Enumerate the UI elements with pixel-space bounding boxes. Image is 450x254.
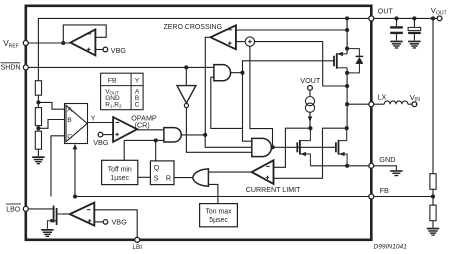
- wire CL plus input to LX node: [274, 128, 347, 178]
- svg-text:VBG: VBG: [112, 218, 128, 227]
- wire ZC minus input to OUT rail: [236, 29, 347, 31]
- wire SHDN to inverter input: [185, 67, 187, 85]
- op-amp VREF buffer triangle: [70, 29, 95, 55]
- resistor chain R top: [35, 81, 41, 96]
- wire OUT pin to VOUT terminal: [374, 17, 437, 19]
- junction tap B: [36, 126, 40, 130]
- junction AND1 output node: [240, 71, 244, 75]
- op-amp OPAMP (CR) triangle: [113, 117, 137, 142]
- ground below divider: [427, 228, 439, 236]
- wire mux select from FB line: [74, 148, 76, 197]
- current offset source circle at ZC input: [245, 37, 254, 46]
- wire AND1 node down to AND2 input 1: [243, 73, 252, 142]
- transistor NMOS1 (sense): [297, 128, 310, 166]
- svg-text:SHDN: SHDN: [1, 64, 21, 71]
- wire inverter output to AND2 input 3: [186, 108, 251, 153]
- inductor L1: [384, 101, 408, 104]
- block Toff min 1usec box: [102, 160, 138, 184]
- arrowhead NMOS1 source: [300, 152, 306, 156]
- svg-text:Ton max: Ton max: [205, 208, 232, 215]
- junction cap1 on OUT: [394, 16, 398, 20]
- transistor PMOS (synchronous rectifier): [334, 53, 347, 68]
- pin FB: [369, 194, 374, 199]
- svg-text:ZERO CROSSING: ZERO CROSSING: [164, 22, 223, 31]
- resistor divider R1: [430, 174, 436, 190]
- wire VREF to amp output: [28, 42, 70, 44]
- wire AND1 node up to PMOS gate: [243, 61, 335, 73]
- AND gate G3 (opamp/latch): [164, 128, 181, 142]
- ground below LBO FET: [41, 229, 53, 237]
- wire LBO pin to FET gate: [28, 208, 53, 210]
- pin OUT: [369, 16, 374, 21]
- wire mux Y output to opamp: [88, 122, 114, 124]
- wire CL minus input to sense node: [274, 128, 311, 167]
- wire ZC plus input to offset source: [236, 41, 245, 43]
- wire AND3 output: [181, 134, 205, 136]
- junction PMOS rail on OUT wire: [345, 16, 349, 20]
- inverter (SHDN) triangle: [177, 86, 196, 104]
- wire GND pin to ground: [374, 166, 397, 170]
- junction ZC minus on PMOS source rail: [345, 28, 349, 32]
- svg-text:Y: Y: [91, 116, 96, 123]
- inverter bubble: [184, 103, 188, 107]
- wire PMOS drain rail to LX: [346, 68, 348, 128]
- AND gate G1 (zero crossing / shdn): [214, 65, 231, 81]
- wire Q node down to latch Q: [155, 140, 157, 161]
- arrowhead current source down: [308, 116, 312, 122]
- junction diode anode: [345, 71, 349, 75]
- wire OR output to latch R: [174, 177, 193, 179]
- wire chain Rmid to tap B: [37, 126, 39, 132]
- junction LX sense on rail: [345, 84, 349, 88]
- wire VOUT to current source: [309, 90, 311, 96]
- junction Q node: [154, 138, 158, 142]
- svg-text:R: R: [166, 174, 171, 183]
- diode triangle: [356, 57, 363, 64]
- junction AND2 output node: [271, 145, 275, 149]
- junction cap2 on OUT: [412, 16, 416, 20]
- svg-text:Toff min: Toff min: [108, 166, 132, 173]
- terminal VBG (reference) at VREF amp: [103, 47, 108, 52]
- wire VREF amp VBG input: [95, 49, 103, 51]
- terminal internal VOUT: [308, 86, 313, 91]
- svg-text:C: C: [67, 133, 72, 140]
- transistor NMOS2 (power switch): [336, 128, 347, 166]
- wire FB sense line (internal): [75, 196, 369, 198]
- svg-text:S: S: [154, 174, 159, 183]
- current source I1 (two circles): [305, 97, 314, 106]
- diode D1 (body diode): [347, 49, 363, 73]
- wire ZC/SHDN to AND1 input 1: [205, 66, 214, 68]
- wire divider R1 to FB node: [432, 189, 434, 205]
- junction SHDN to inverter: [184, 65, 188, 69]
- IC body outline box: [26, 6, 372, 240]
- wire divider R2 to ground: [432, 221, 434, 228]
- wire VREF amp feedback loop: [63, 25, 106, 43]
- pin VREF: [23, 41, 28, 46]
- svg-text:FB: FB: [108, 77, 117, 84]
- table horizontal divider: [101, 85, 144, 87]
- overline for SHDN: [1, 62, 21, 64]
- terminal VBG at LBO comp: [103, 220, 108, 225]
- wire LBO comp plus to VBG: [94, 221, 103, 223]
- block SR latch Q/S/R box: [150, 161, 174, 185]
- block Ton max 5usec box: [200, 204, 238, 227]
- table vertical divider: [130, 73, 132, 110]
- comparator LBO (low battery) triangle: [70, 203, 95, 226]
- wire current-limit comp to OR input 1: [208, 171, 251, 173]
- overline for LBO: [6, 203, 21, 205]
- junction AND3 output node: [203, 133, 207, 137]
- wire Toff-min to latch S: [138, 176, 151, 178]
- ground at GND pin: [390, 170, 402, 176]
- svg-text:OUT: OUT: [378, 7, 394, 15]
- wire FB pin to divider: [374, 196, 433, 198]
- wire offset source bottom to gate-drive node: [250, 46, 273, 147]
- wire AND1 output: [231, 72, 243, 74]
- wire chain Rbot to ground: [37, 149, 39, 156]
- svg-text:LBO: LBO: [6, 207, 21, 214]
- comparator zero-crossing triangle: [211, 25, 236, 49]
- svg-text:A: A: [67, 107, 72, 114]
- OR gate (reset, mirrored left-pointing): [193, 169, 209, 186]
- junction tap A: [36, 100, 40, 104]
- junction rail-LX pin: [345, 102, 349, 106]
- ground below C1: [390, 41, 402, 49]
- svg-text:D99IN1041: D99IN1041: [374, 244, 408, 251]
- wire LX rail to pin: [347, 103, 369, 105]
- junction divider on OUT: [431, 16, 435, 20]
- terminal VOUT external: [437, 16, 442, 21]
- wire internal VOUT rail (top): [38, 18, 368, 80]
- terminal VIN: [412, 102, 417, 107]
- wire LBI to comparator input: [94, 210, 137, 238]
- pin GND: [369, 163, 374, 168]
- junction NMOS2 drain / LX net: [345, 126, 349, 130]
- svg-text:(CR): (CR): [135, 121, 150, 130]
- junction external FB node: [431, 194, 435, 198]
- transistor LBO FET (open drain): [47, 206, 62, 229]
- svg-text:1µsec: 1µsec: [110, 175, 129, 182]
- junction diode cathode on rail: [345, 47, 349, 51]
- resistor chain R middle: [35, 108, 41, 126]
- svg-text:Q: Q: [154, 163, 160, 172]
- svg-text:VBG: VBG: [93, 138, 109, 147]
- ground below resistor chain: [32, 156, 44, 164]
- wire mux input C from FB sense line: [51, 136, 65, 197]
- wire inductor to VIN terminal: [408, 103, 412, 105]
- wire current source to NMOS1 drain: [309, 112, 311, 128]
- wire tap A to mux input A: [38, 102, 64, 109]
- junction NMOS2 source on GND rail: [345, 164, 349, 168]
- pin LBI: [135, 237, 140, 242]
- AND gate G2 (gate drive, 3-input): [252, 138, 272, 156]
- wire Q node to Toff-min box: [123, 140, 125, 160]
- resistor divider R2: [430, 205, 436, 221]
- comparator current-limit triangle: [252, 160, 274, 184]
- capacitor C2 (polarized): [408, 27, 421, 30]
- wire offset source to LX sense: [255, 42, 348, 86]
- arrowhead NMOS2 source: [339, 152, 345, 156]
- svg-text:FB: FB: [380, 186, 389, 195]
- wire Ton-max to OR input 2: [208, 184, 218, 203]
- table FB/Y box: [101, 73, 144, 110]
- svg-text:Y: Y: [135, 77, 140, 84]
- junction FB line to mux select: [73, 194, 77, 198]
- multiplexer triangle: [66, 105, 87, 141]
- capacitor C1: [390, 26, 403, 34]
- wire ZC output down to AND1 and latch node: [205, 37, 210, 135]
- wire AND2 output to NMOS gates: [271, 146, 336, 148]
- pin LBO: [23, 206, 28, 211]
- wire SHDN line: [28, 66, 206, 68]
- resistor chain R bottom: [35, 131, 41, 149]
- wire VOUT down to divider: [432, 18, 434, 173]
- wire AND3 output to AND2 input 2: [205, 135, 252, 147]
- wire PMOS source rail to OUT: [346, 18, 348, 54]
- wire VBG to opamp plus input: [103, 134, 113, 136]
- svg-text:B: B: [67, 117, 72, 124]
- svg-text:5µsec: 5µsec: [209, 217, 228, 224]
- svg-text:C: C: [135, 101, 140, 108]
- svg-text:LX: LX: [378, 93, 387, 102]
- svg-text:VOUT: VOUT: [300, 76, 321, 85]
- wire cap C2 bottom lead: [413, 34, 415, 40]
- svg-text:LBI: LBI: [132, 244, 142, 251]
- wire NMOS sources to GND pin: [310, 165, 368, 167]
- junction VREF feedback node: [61, 41, 65, 45]
- svg-text:CURRENT LIMIT: CURRENT LIMIT: [246, 185, 301, 194]
- arrowhead PMOS source: [337, 52, 343, 56]
- pin LX: [369, 102, 374, 107]
- wire cap C1 bottom lead: [396, 34, 398, 40]
- wire AND1 input 2 feedback: [211, 77, 243, 128]
- pin SHDN: [23, 65, 28, 70]
- multiplexer U-mux box: [65, 104, 88, 144]
- wire opamp output to AND3: [137, 129, 164, 131]
- wire tap B to mux input B: [38, 120, 64, 129]
- arrowhead mux select: [73, 144, 78, 150]
- arrowhead LBO FET source: [51, 219, 57, 223]
- junction NMOS1 drain / CL sense: [308, 126, 312, 130]
- ground below C2: [408, 41, 420, 49]
- wire chain Rtop to tap A: [37, 95, 39, 107]
- wire cap C2 top lead: [413, 18, 415, 27]
- svg-text:VBG: VBG: [111, 46, 127, 55]
- wire LBO comp output to FET drain: [63, 213, 70, 215]
- wire cap C1 top lead: [396, 18, 398, 26]
- terminal VBG at opamp: [98, 132, 103, 137]
- wire LX pin to inductor: [374, 103, 384, 105]
- svg-text:GND: GND: [379, 155, 395, 164]
- wire Q node to AND3 input 2: [124, 139, 164, 141]
